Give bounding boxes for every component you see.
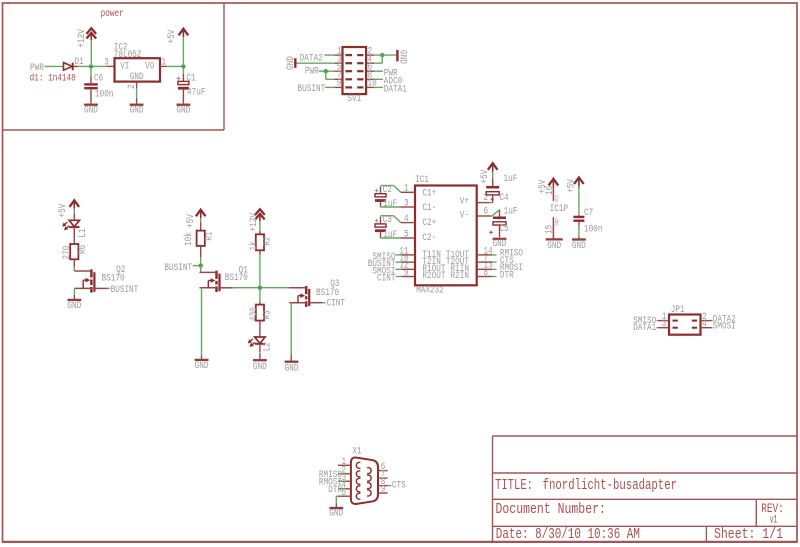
- svg-text:C3: C3: [383, 214, 392, 226]
- svg-text:GND: GND: [285, 56, 297, 70]
- svg-text:100n: 100n: [95, 89, 114, 101]
- svg-text:CTS: CTS: [392, 480, 406, 492]
- svg-text:Sheet: 1/1: Sheet: 1/1: [714, 525, 783, 543]
- svg-text:16: 16: [544, 186, 556, 195]
- svg-text:SV1: SV1: [347, 93, 361, 105]
- svg-text:R2: R2: [261, 237, 273, 246]
- svg-text:C1: C1: [187, 72, 196, 84]
- svg-text:+12V: +12V: [76, 28, 88, 47]
- svg-text:CINT: CINT: [327, 298, 346, 310]
- svg-text:C2-: C2-: [422, 232, 436, 244]
- svg-text:GND: GND: [547, 240, 561, 252]
- svg-text:R3: R3: [261, 310, 273, 319]
- svg-text:PWR: PWR: [305, 66, 319, 78]
- svg-text:1uF: 1uF: [383, 229, 397, 241]
- svg-text:X1: X1: [352, 446, 361, 458]
- svg-text:9: 9: [337, 78, 342, 90]
- svg-text:R1: R1: [203, 232, 215, 241]
- svg-text:47uF: 47uF: [187, 87, 206, 99]
- svg-text:BS170: BS170: [225, 272, 248, 284]
- svg-text:DATA1: DATA1: [633, 322, 656, 334]
- svg-text:VO: VO: [145, 61, 154, 73]
- svg-text:GND: GND: [130, 104, 144, 116]
- svg-text:DTR: DTR: [328, 484, 342, 496]
- svg-text:1uF: 1uF: [383, 198, 397, 210]
- svg-text:GND: GND: [493, 238, 507, 250]
- svg-text:JP1: JP1: [671, 304, 685, 316]
- svg-text:GND: GND: [253, 361, 267, 373]
- svg-text:GND: GND: [176, 104, 190, 116]
- svg-text:4: 4: [702, 318, 707, 330]
- svg-text:DTR: DTR: [500, 269, 514, 281]
- svg-text:GND: GND: [554, 218, 560, 225]
- svg-text:L1: L1: [77, 228, 89, 237]
- svg-text:Date: 8/30/10 10:36 AM: Date: 8/30/10 10:36 AM: [496, 525, 640, 543]
- svg-text:Document Number:: Document Number:: [496, 500, 606, 518]
- svg-text:CINT: CINT: [377, 273, 396, 285]
- svg-text:IC1P: IC1P: [550, 203, 569, 215]
- svg-text:9: 9: [381, 484, 386, 496]
- svg-text:+12V: +12V: [248, 212, 260, 231]
- svg-text:IC1: IC1: [415, 174, 429, 186]
- svg-text:SMOSI: SMOSI: [713, 321, 736, 333]
- svg-text:V-: V-: [460, 209, 469, 221]
- svg-text:GND: GND: [130, 71, 144, 83]
- svg-text:C2+: C2+: [422, 217, 436, 229]
- svg-text:3: 3: [104, 56, 109, 68]
- svg-text:+5V: +5V: [479, 169, 491, 184]
- svg-text:VI: VI: [120, 61, 129, 73]
- svg-text:GND: GND: [84, 104, 98, 116]
- svg-text:C2: C2: [383, 184, 392, 196]
- svg-text:10k: 10k: [183, 232, 195, 246]
- svg-text:V+: V+: [460, 196, 469, 208]
- svg-text:78L05Z: 78L05Z: [114, 49, 142, 61]
- svg-text:power: power: [101, 8, 124, 20]
- svg-text:d1: 1n4148: d1: 1n4148: [30, 73, 76, 85]
- svg-text:+5V: +5V: [57, 203, 69, 218]
- svg-text:C4: C4: [499, 192, 508, 204]
- svg-text:C5: C5: [499, 223, 508, 235]
- svg-text:+5V: +5V: [185, 213, 197, 228]
- svg-text:BUSINT: BUSINT: [111, 284, 139, 296]
- svg-text:GND: GND: [396, 50, 408, 64]
- svg-text:1uF: 1uF: [504, 205, 518, 217]
- svg-text:+5V: +5V: [166, 29, 178, 44]
- svg-text:430: 430: [248, 307, 260, 321]
- svg-text:DATA1: DATA1: [384, 84, 407, 96]
- svg-text:270: 270: [61, 246, 73, 260]
- svg-text:R2IN: R2IN: [451, 270, 470, 282]
- svg-text:C7: C7: [584, 207, 593, 219]
- svg-text:C1+: C1+: [422, 188, 436, 200]
- svg-text:TITLE:: TITLE:: [495, 476, 533, 494]
- svg-text:GND: GND: [67, 300, 81, 312]
- svg-text:BUSINT: BUSINT: [298, 83, 326, 95]
- svg-text:GND: GND: [195, 360, 209, 372]
- svg-text:L2: L2: [261, 342, 273, 351]
- svg-text:GND: GND: [572, 240, 586, 252]
- svg-text:R6: R6: [77, 245, 89, 254]
- svg-text:1k: 1k: [248, 241, 260, 250]
- svg-text:BS170: BS170: [102, 272, 125, 284]
- svg-text:MAX232: MAX232: [416, 284, 444, 296]
- svg-text:fnordlicht-busadapter: fnordlicht-busadapter: [543, 476, 677, 494]
- svg-text:2: 2: [126, 84, 138, 89]
- svg-text:R2OUT: R2OUT: [422, 270, 445, 282]
- svg-text:C6: C6: [94, 73, 103, 85]
- svg-text:C1-: C1-: [422, 202, 436, 214]
- svg-text:3: 3: [662, 318, 667, 330]
- svg-text:GND: GND: [329, 508, 343, 520]
- svg-text:VCC: VCC: [554, 195, 560, 202]
- svg-text:1uF: 1uF: [504, 173, 518, 185]
- svg-text:GND: GND: [285, 363, 299, 375]
- svg-text:BUSINT: BUSINT: [164, 262, 192, 274]
- svg-text:100n: 100n: [584, 223, 603, 235]
- svg-text:+5V: +5V: [566, 178, 578, 193]
